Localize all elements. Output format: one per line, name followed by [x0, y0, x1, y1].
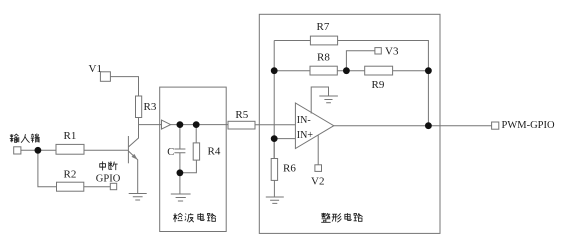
svg-text:R2: R2 [64, 168, 77, 180]
svg-text:IN+: IN+ [297, 130, 314, 141]
svg-text:R1: R1 [64, 130, 77, 142]
svg-text:R7: R7 [317, 21, 330, 33]
svg-text:IN-: IN- [297, 115, 311, 126]
svg-text:PWM-GPIO: PWM-GPIO [502, 120, 556, 131]
svg-text:V2: V2 [311, 176, 324, 188]
svg-text:R5: R5 [235, 109, 248, 121]
svg-text:V3: V3 [385, 46, 399, 58]
svg-text:R4: R4 [208, 146, 221, 158]
svg-text:GPIO: GPIO [96, 173, 121, 184]
svg-text:R6: R6 [283, 162, 296, 174]
svg-text:C: C [167, 147, 174, 158]
svg-text:R9: R9 [372, 79, 385, 91]
svg-text:R3: R3 [144, 101, 157, 113]
svg-text:R8: R8 [317, 52, 330, 64]
svg-text:V1: V1 [89, 63, 102, 75]
